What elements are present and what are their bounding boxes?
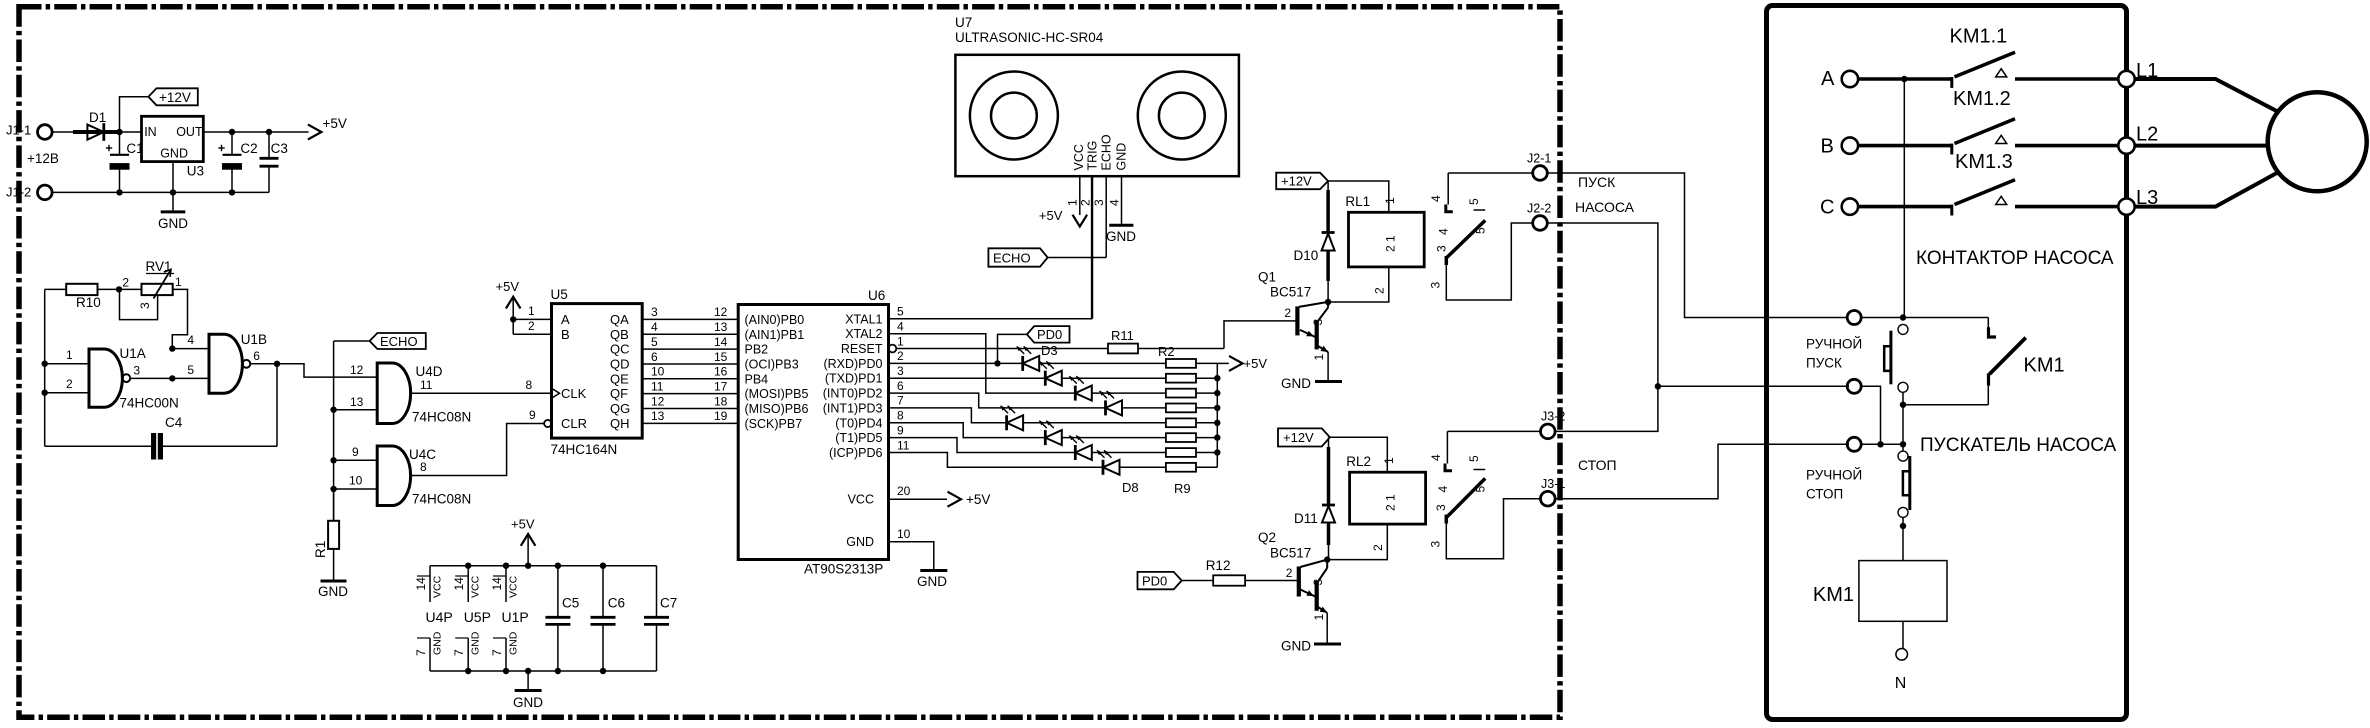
capacitor C3 bbox=[260, 132, 288, 192]
svg-text:13: 13 bbox=[350, 395, 364, 409]
net flag ECHO (U7) bbox=[988, 248, 1047, 266]
manual start terminal top bbox=[1847, 311, 1861, 325]
svg-text:2: 2 bbox=[122, 276, 129, 290]
LED row 2 bbox=[1039, 361, 1166, 386]
relay coil RL2 bbox=[1346, 454, 1425, 524]
manual start terminal bottom bbox=[1847, 379, 1861, 393]
svg-text:9: 9 bbox=[352, 445, 359, 459]
wire U5 QE to U6 PB4 bbox=[610, 365, 768, 387]
svg-text:A: A bbox=[1821, 68, 1835, 90]
sensor U7 ULTRASONIC-HC-SR04 bbox=[955, 15, 1239, 176]
RV1 wiper loop bbox=[120, 289, 158, 319]
wire PD6 row bbox=[889, 453, 1104, 468]
svg-text:74HC164N: 74HC164N bbox=[551, 442, 618, 457]
contactor contact KM1.2 bbox=[1952, 88, 2121, 155]
svg-text:KM1.2: KM1.2 bbox=[1953, 88, 2011, 110]
wire GND pin10 bbox=[889, 527, 948, 589]
svg-text:J3-1: J3-1 bbox=[1541, 477, 1565, 491]
resistor R2 element 7 bbox=[1166, 448, 1217, 457]
pin (INT1)PD3 bbox=[823, 394, 904, 416]
svg-text:R9: R9 bbox=[1174, 481, 1191, 496]
LED row 8 bbox=[1097, 450, 1166, 475]
svg-text:C7: C7 bbox=[660, 596, 677, 611]
relay coil RL1 bbox=[1345, 194, 1424, 267]
pin (TXD)PD1 bbox=[825, 364, 904, 386]
wire phase B bbox=[1858, 144, 1952, 148]
connector J1-1 bbox=[6, 123, 52, 140]
resistor R12 bbox=[1182, 558, 1298, 586]
potentiometer RV1 bbox=[122, 259, 182, 299]
svg-text:AT90S2313P: AT90S2313P bbox=[804, 562, 883, 577]
wire U4C pins bbox=[334, 459, 378, 461]
svg-text:Q2: Q2 bbox=[1258, 530, 1276, 545]
svg-text:(AIN0)PB0: (AIN0)PB0 bbox=[745, 313, 805, 327]
net flag PD0 (upper) bbox=[998, 326, 1070, 363]
svg-text:10: 10 bbox=[897, 527, 911, 541]
svg-text:U1A: U1A bbox=[120, 346, 146, 361]
svg-text:BC517: BC517 bbox=[1270, 546, 1311, 561]
wire U7 TRIG pin2 bbox=[1079, 176, 1093, 319]
svg-text:QD: QD bbox=[610, 356, 630, 371]
terminal C bbox=[1820, 196, 1858, 218]
svg-text:B: B bbox=[1821, 135, 1834, 157]
svg-text:14: 14 bbox=[414, 577, 428, 591]
diode D10 bbox=[1294, 181, 1335, 302]
svg-text:4: 4 bbox=[1429, 195, 1443, 202]
pin (T1)PD5 bbox=[835, 423, 904, 445]
and gate U4D bbox=[377, 363, 471, 425]
svg-text:PD0: PD0 bbox=[1142, 573, 1167, 588]
svg-text:1: 1 bbox=[528, 304, 535, 318]
node VIN junction bbox=[116, 129, 122, 135]
svg-text:Q1: Q1 bbox=[1258, 270, 1276, 285]
svg-text:R11: R11 bbox=[1111, 328, 1134, 343]
wire coil to N bbox=[1902, 621, 1904, 648]
transistor Q1 BC517 bbox=[1258, 270, 1328, 361]
resistor R2 element 5 bbox=[1166, 418, 1217, 427]
svg-text:+12B: +12B bbox=[27, 151, 59, 166]
connector J2-2 bbox=[1527, 202, 1551, 231]
wire stop button to coil bbox=[1902, 517, 1904, 560]
contactor coil KM1 bbox=[1813, 561, 1947, 622]
svg-text:+5V: +5V bbox=[1039, 208, 1063, 223]
svg-text:(MISO)PB6: (MISO)PB6 bbox=[745, 402, 809, 416]
resistor R10 bbox=[45, 284, 142, 310]
wire +12V to RL1 pin1 bbox=[1328, 181, 1389, 212]
svg-text:13: 13 bbox=[651, 409, 665, 423]
wire echo vertical bus bbox=[333, 341, 335, 521]
wire U5 QD to U6 (OCI)PB3 bbox=[610, 350, 799, 372]
svg-text:C2: C2 bbox=[240, 141, 257, 156]
wire XTAL1 to U7 TRIG bbox=[889, 176, 1092, 319]
svg-text:D10: D10 bbox=[1294, 248, 1319, 263]
svg-text:74HC00N: 74HC00N bbox=[120, 396, 179, 411]
LED row 3 bbox=[1069, 376, 1166, 401]
power flag +12V (RL2) bbox=[1278, 428, 1330, 446]
wire U5 QC to U6 PB2 bbox=[610, 335, 768, 357]
svg-text:QE: QE bbox=[610, 371, 629, 386]
svg-text:ПУСКАТЕЛЬ НАСОСА: ПУСКАТЕЛЬ НАСОСА bbox=[1920, 435, 2117, 456]
power unit U1P bbox=[490, 563, 529, 675]
svg-text:18: 18 bbox=[714, 394, 728, 408]
svg-text:(INT1)PD3: (INT1)PD3 bbox=[823, 401, 883, 415]
power flag +12V (RL1) bbox=[1276, 173, 1328, 190]
terminal L3 bbox=[2118, 187, 2158, 215]
svg-text:4: 4 bbox=[1429, 454, 1443, 461]
capacitor C7 bbox=[644, 566, 677, 671]
svg-text:(SCK)PB7: (SCK)PB7 bbox=[745, 417, 803, 431]
svg-text:3: 3 bbox=[651, 305, 658, 319]
svg-text:GND: GND bbox=[1281, 639, 1311, 654]
svg-text:74HC08N: 74HC08N bbox=[412, 492, 471, 507]
svg-text:4: 4 bbox=[187, 333, 194, 347]
svg-text:1: 1 bbox=[897, 334, 904, 348]
svg-text:VCC: VCC bbox=[508, 575, 520, 598]
svg-text:QB: QB bbox=[610, 327, 629, 342]
wire U1A inputs bbox=[45, 363, 89, 365]
svg-text:5: 5 bbox=[897, 305, 904, 319]
svg-text:J3-2: J3-2 bbox=[1541, 410, 1565, 424]
svg-text:QF: QF bbox=[610, 386, 628, 401]
svg-text:RV1: RV1 bbox=[146, 259, 172, 274]
svg-text:GND: GND bbox=[318, 584, 348, 599]
wire manual start row bbox=[1861, 317, 1988, 319]
wire ground rail J1-2 bbox=[52, 191, 269, 193]
svg-text:N: N bbox=[1895, 675, 1907, 692]
svg-text:ECHO: ECHO bbox=[993, 250, 1031, 265]
net flag ECHO (gates) bbox=[334, 333, 426, 349]
svg-text:11: 11 bbox=[651, 379, 664, 393]
wire RV1 pin1 to gate pin4 bbox=[172, 289, 187, 348]
svg-text:GND: GND bbox=[508, 631, 520, 655]
wire U5 QF to U6 (MOSI)PB5 bbox=[610, 379, 808, 401]
svg-text:B: B bbox=[561, 327, 570, 342]
svg-text:R2: R2 bbox=[1158, 344, 1175, 359]
terminal A bbox=[1821, 68, 1858, 90]
svg-text:GND: GND bbox=[432, 631, 444, 655]
svg-text:12: 12 bbox=[350, 363, 364, 377]
wire PD0 row bbox=[889, 362, 1023, 364]
svg-text:VCC: VCC bbox=[470, 575, 482, 598]
svg-text:IN: IN bbox=[144, 125, 157, 139]
capacitor C5 bbox=[545, 563, 579, 675]
wire U5 QH to U6 (SCK)PB7 bbox=[610, 409, 802, 431]
svg-text:74HC08N: 74HC08N bbox=[412, 410, 471, 425]
push button manual stop bbox=[1806, 444, 1910, 517]
ground (Q2) bbox=[1281, 613, 1341, 654]
wire J3-1 to manual stop bbox=[1555, 444, 1849, 498]
svg-text:U5: U5 bbox=[551, 287, 568, 302]
controller section border (dash-dot) bbox=[19, 7, 1560, 718]
resistor R2 element 2 bbox=[1166, 374, 1217, 383]
svg-text:3: 3 bbox=[1434, 245, 1448, 252]
svg-text:5: 5 bbox=[1467, 455, 1481, 462]
auxiliary contact KM1 bbox=[1988, 318, 2064, 405]
svg-text:J1-1: J1-1 bbox=[6, 123, 31, 138]
wire J2-2 net bbox=[1547, 223, 1658, 431]
wire VCC pin20 to +5V bbox=[889, 484, 991, 507]
svg-text:2: 2 bbox=[897, 349, 904, 363]
svg-text:3: 3 bbox=[1429, 541, 1443, 548]
svg-text:6: 6 bbox=[897, 379, 904, 393]
svg-text:GND: GND bbox=[470, 631, 482, 655]
svg-text:(MOSI)PB5: (MOSI)PB5 bbox=[745, 387, 809, 401]
diode D11 bbox=[1294, 437, 1335, 559]
svg-text:2 1: 2 1 bbox=[1384, 494, 1398, 511]
svg-text:(T1)PD5: (T1)PD5 bbox=[835, 431, 882, 445]
svg-text:13: 13 bbox=[714, 320, 728, 334]
shift register U5 74HC164N bbox=[544, 287, 642, 457]
svg-text:BC517: BC517 bbox=[1270, 285, 1311, 300]
pin XTAL2 bbox=[845, 320, 904, 342]
regulator U3 bbox=[142, 116, 205, 178]
svg-text:(ICP)PD6: (ICP)PD6 bbox=[829, 446, 883, 460]
svg-text:QH: QH bbox=[610, 416, 630, 431]
svg-text:U7: U7 bbox=[955, 15, 972, 30]
svg-text:U4P: U4P bbox=[426, 609, 453, 625]
svg-text:7: 7 bbox=[452, 649, 466, 656]
svg-text:4: 4 bbox=[1108, 199, 1122, 206]
svg-text:U1B: U1B bbox=[241, 332, 267, 347]
wire PD4 row bbox=[889, 423, 1046, 438]
svg-text:QA: QA bbox=[610, 312, 629, 327]
svg-text:KM1: KM1 bbox=[2024, 355, 2065, 377]
RESET bubble bbox=[889, 345, 897, 353]
svg-text:ECHO: ECHO bbox=[1100, 134, 1114, 170]
svg-text:ПУСК: ПУСК bbox=[1806, 356, 1842, 371]
svg-text:2: 2 bbox=[1371, 544, 1385, 551]
power unit U5P bbox=[452, 563, 491, 675]
svg-text:J2-2: J2-2 bbox=[1527, 202, 1551, 216]
ground below R1 bbox=[318, 549, 348, 599]
svg-text:5: 5 bbox=[651, 335, 658, 349]
resistor R2 element 4 bbox=[1166, 404, 1217, 413]
svg-text:XTAL2: XTAL2 bbox=[845, 327, 882, 341]
wire U5 QG to U6 (MISO)PB6 bbox=[610, 394, 808, 416]
svg-text:RL1: RL1 bbox=[1345, 194, 1370, 209]
wire PD2 row bbox=[889, 393, 1106, 408]
svg-text:+12V: +12V bbox=[1283, 430, 1314, 445]
svg-text:9: 9 bbox=[529, 408, 536, 422]
resistor R1 bbox=[313, 489, 339, 558]
svg-text:8: 8 bbox=[420, 460, 427, 474]
svg-text:4: 4 bbox=[1437, 228, 1451, 235]
svg-text:(T0)PD4: (T0)PD4 bbox=[835, 416, 882, 430]
svg-text:C4: C4 bbox=[165, 415, 183, 430]
svg-text:GND: GND bbox=[846, 535, 874, 549]
power unit U4P bbox=[414, 566, 453, 671]
wire junction to U3 IN bbox=[120, 131, 142, 133]
svg-text:XTAL1: XTAL1 bbox=[845, 312, 882, 326]
wire manual stop row bbox=[1861, 443, 1903, 445]
svg-text:ULTRASONIC-HC-SR04: ULTRASONIC-HC-SR04 bbox=[955, 30, 1104, 45]
wire U5 QA to U6 (AIN0)PB0 bbox=[610, 305, 804, 327]
nand gate U1A bbox=[89, 346, 179, 411]
svg-text:2: 2 bbox=[1373, 287, 1387, 294]
svg-text:НАСОСА: НАСОСА bbox=[1575, 199, 1635, 215]
wire U5 pins A B bbox=[513, 318, 551, 320]
wire PD3 row bbox=[889, 408, 1007, 423]
terminal N bbox=[1895, 649, 1908, 693]
LED row 7 bbox=[1069, 436, 1166, 461]
wire A to manual start column bbox=[1903, 79, 1905, 318]
resistor R2 element 1 bbox=[1166, 359, 1217, 368]
connector J1-2 bbox=[6, 185, 52, 200]
wire U1A out to U1B pin5 bbox=[130, 377, 209, 379]
wire U7 ECHO pin3 bbox=[1048, 176, 1107, 257]
svg-text:14: 14 bbox=[490, 577, 504, 591]
svg-text:15: 15 bbox=[714, 350, 728, 364]
wire U1B out bbox=[250, 363, 277, 365]
manual stop terminal bbox=[1847, 437, 1861, 451]
svg-text:ПУСК: ПУСК bbox=[1578, 174, 1616, 190]
resistor R11 bbox=[1108, 328, 1224, 353]
svg-text:1: 1 bbox=[1066, 199, 1080, 206]
power arrow +5V (U5) bbox=[496, 279, 521, 334]
svg-text:C6: C6 bbox=[608, 596, 625, 611]
svg-text:3: 3 bbox=[1311, 319, 1325, 326]
ground (Q1) bbox=[1281, 352, 1342, 391]
svg-text:PB2: PB2 bbox=[745, 343, 769, 357]
svg-text:3: 3 bbox=[133, 364, 140, 378]
wire PD1 row bbox=[889, 377, 1046, 379]
capacitor C2 bbox=[218, 132, 257, 192]
contactor contact KM1.3 bbox=[1952, 151, 2121, 216]
svg-text:GND: GND bbox=[160, 147, 188, 161]
wire RESET to R11 bbox=[896, 348, 1108, 350]
LED row 6 bbox=[1039, 421, 1166, 446]
motor bbox=[2268, 92, 2367, 191]
svg-text:4: 4 bbox=[897, 320, 904, 334]
wire L1 to motor bbox=[2135, 79, 2278, 112]
svg-text:СТОП: СТОП bbox=[1578, 457, 1617, 473]
connector J3-2 bbox=[1541, 410, 1566, 439]
wire below start button bbox=[1902, 392, 1904, 444]
svg-text:20: 20 bbox=[897, 484, 911, 498]
svg-text:(TXD)PD1: (TXD)PD1 bbox=[825, 372, 883, 386]
resistor R2 element 3 bbox=[1166, 389, 1217, 398]
svg-text:VCC: VCC bbox=[848, 493, 874, 507]
svg-text:4: 4 bbox=[1436, 486, 1450, 493]
svg-text:OUT: OUT bbox=[176, 125, 203, 139]
svg-text:TRIG: TRIG bbox=[1086, 141, 1100, 171]
svg-text:CLR: CLR bbox=[561, 416, 587, 431]
svg-text:2 1: 2 1 bbox=[1384, 235, 1398, 252]
capacitor C6 bbox=[591, 563, 626, 675]
svg-text:R10: R10 bbox=[76, 295, 101, 310]
svg-text:GND: GND bbox=[1115, 143, 1129, 171]
svg-text:1: 1 bbox=[1383, 197, 1397, 204]
wire U4C out to U5 CLR bbox=[411, 424, 545, 476]
svg-text:8: 8 bbox=[897, 409, 904, 423]
svg-text:11: 11 bbox=[420, 378, 433, 392]
MCU U6 AT90S2313P bbox=[738, 288, 888, 577]
svg-text:+12V: +12V bbox=[1281, 174, 1312, 189]
capacitor C1 bbox=[106, 132, 144, 192]
svg-text:C5: C5 bbox=[562, 596, 579, 611]
svg-text:3: 3 bbox=[897, 364, 904, 378]
svg-text:2: 2 bbox=[528, 319, 535, 333]
pin (T0)PD4 bbox=[835, 409, 904, 431]
svg-text:11: 11 bbox=[897, 438, 910, 452]
wire to U4D pin12 bbox=[277, 364, 377, 377]
svg-text:+5V: +5V bbox=[1244, 356, 1268, 371]
svg-text:L2: L2 bbox=[2136, 124, 2158, 146]
svg-text:D11: D11 bbox=[1294, 511, 1318, 526]
svg-text:GND: GND bbox=[513, 695, 543, 710]
wire U4D pin13 bbox=[334, 409, 378, 411]
svg-text:GND: GND bbox=[917, 574, 947, 589]
svg-text:GND: GND bbox=[1106, 229, 1136, 244]
svg-text:3: 3 bbox=[1311, 579, 1325, 586]
ground (decoupling) bbox=[513, 671, 543, 710]
svg-text:3: 3 bbox=[1092, 199, 1106, 206]
power arrow +5V (decoupling) bbox=[511, 517, 535, 566]
svg-text:C3: C3 bbox=[271, 141, 288, 156]
nand gate U1B bbox=[209, 332, 267, 393]
terminal L2 bbox=[2118, 124, 2158, 154]
svg-text:GND: GND bbox=[1281, 376, 1311, 391]
svg-text:1: 1 bbox=[1382, 457, 1396, 464]
svg-text:D1: D1 bbox=[89, 110, 106, 125]
svg-text:10: 10 bbox=[349, 474, 363, 488]
svg-text:1: 1 bbox=[1312, 354, 1326, 361]
power arrow +5V (R2 bus) bbox=[1217, 356, 1267, 371]
wire R2 common bus bbox=[1216, 363, 1218, 467]
wire feedback to C4 bbox=[276, 364, 278, 447]
svg-text:ECHO: ECHO bbox=[380, 334, 418, 349]
svg-text:5: 5 bbox=[187, 363, 194, 377]
svg-text:J1-2: J1-2 bbox=[6, 185, 31, 200]
svg-text:19: 19 bbox=[714, 409, 728, 423]
svg-text:KM1.1: KM1.1 bbox=[1950, 26, 2008, 48]
svg-text:8: 8 bbox=[526, 378, 533, 392]
capacitor C4 bbox=[45, 415, 277, 459]
svg-text:RL2: RL2 bbox=[1346, 454, 1371, 469]
svg-text:(AIN1)PB1: (AIN1)PB1 bbox=[745, 328, 805, 342]
svg-text:GND: GND bbox=[158, 216, 188, 231]
svg-text:VCC: VCC bbox=[432, 575, 444, 598]
svg-text:+5V: +5V bbox=[496, 279, 520, 294]
ground symbol below U3 bbox=[158, 162, 188, 231]
wire bypass to stop row bbox=[1861, 386, 1880, 444]
transistor Q2 BC517 bbox=[1258, 530, 1327, 621]
svg-text:12: 12 bbox=[651, 394, 665, 408]
svg-text:2: 2 bbox=[1286, 566, 1293, 580]
svg-text:(INT0)PD2: (INT0)PD2 bbox=[823, 387, 883, 401]
power cabinet border bbox=[1767, 6, 2127, 720]
pin (ICP)PD6 bbox=[829, 438, 910, 460]
wire U4D out to U5 CLK bbox=[411, 392, 552, 394]
svg-text:D3: D3 bbox=[1041, 343, 1058, 358]
svg-text:16: 16 bbox=[714, 365, 728, 379]
resistor R2 element 6 bbox=[1166, 433, 1217, 442]
svg-text:7: 7 bbox=[897, 394, 904, 408]
relay RL2 contact bbox=[1429, 431, 1541, 558]
wire phase C bbox=[1858, 205, 1952, 209]
svg-text:17: 17 bbox=[714, 379, 728, 393]
wire decoupling GND rail bbox=[430, 670, 657, 672]
net flag PD0 (Q2) bbox=[1138, 572, 1182, 589]
svg-text:7: 7 bbox=[490, 649, 504, 656]
svg-text:2: 2 bbox=[1284, 306, 1291, 320]
wire U5 QB to U6 (AIN1)PB1 bbox=[610, 320, 804, 342]
svg-text:U4D: U4D bbox=[416, 364, 443, 379]
svg-text:12: 12 bbox=[714, 305, 728, 319]
pin XTAL1 bbox=[845, 305, 904, 327]
svg-text:10: 10 bbox=[651, 365, 665, 379]
wire RL1 pin2 bbox=[1328, 267, 1389, 302]
